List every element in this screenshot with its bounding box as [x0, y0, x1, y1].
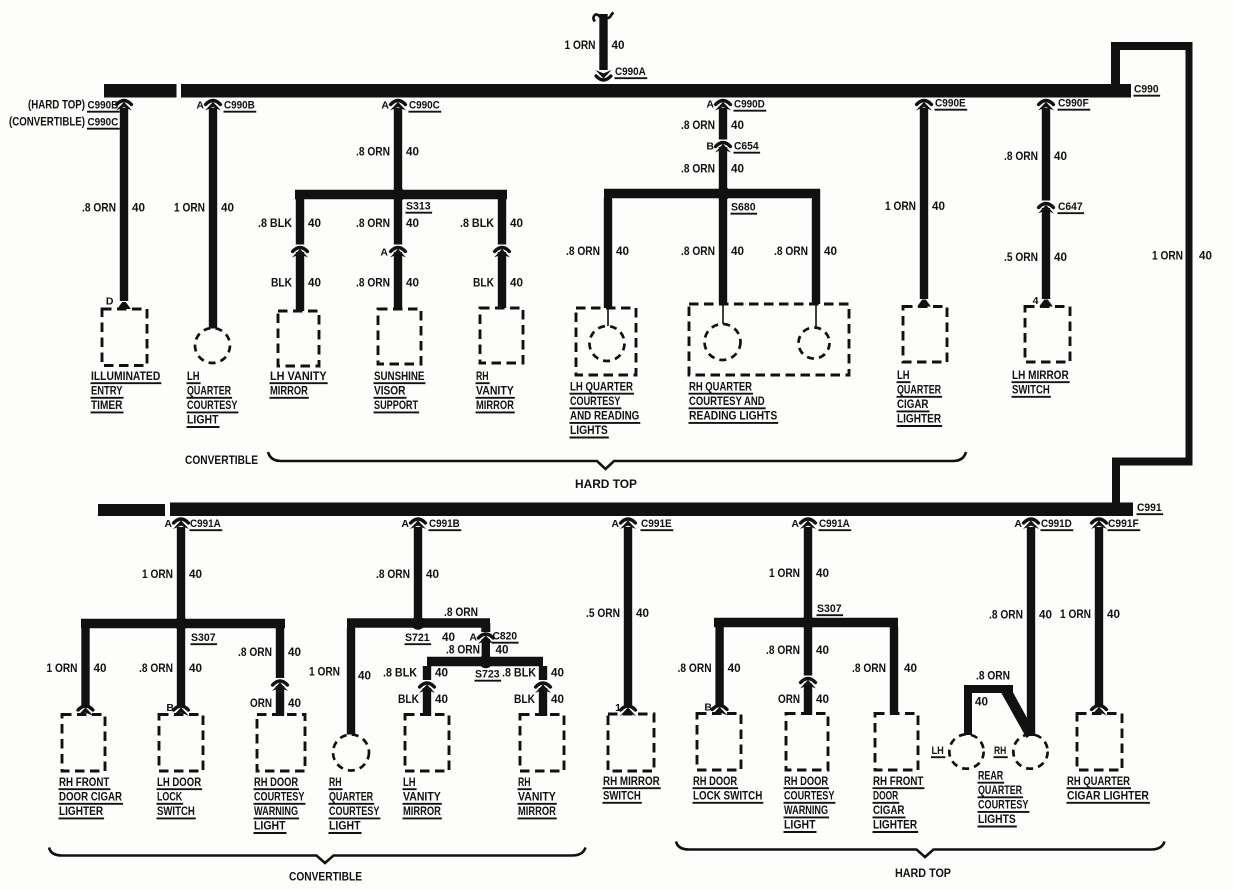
- svg-text:COURTESY: COURTESY: [570, 396, 621, 408]
- svg-text:1 ORN: 1 ORN: [174, 203, 205, 215]
- svg-text:40: 40: [904, 663, 917, 675]
- svg-text:C991: C991: [1137, 502, 1162, 514]
- svg-text:BLK: BLK: [271, 278, 293, 290]
- svg-text:1 ORN: 1 ORN: [142, 569, 173, 581]
- svg-text:RH MIRROR: RH MIRROR: [603, 776, 660, 788]
- wire W19 S307 centre to LH door lock switch: [177, 628, 185, 706]
- svg-text:A: A: [791, 518, 799, 530]
- svg-text:CIGAR LIGHTER: CIGAR LIGHTER: [1067, 790, 1150, 802]
- label .8 ORN on S721 right arm: [444, 607, 478, 619]
- label HARD TOP upper section: [575, 477, 637, 491]
- wire W7 S313 to sunshine visor upper: [394, 199, 402, 245]
- connector chevron on W26: [535, 683, 551, 693]
- svg-text:40: 40: [510, 218, 523, 230]
- svg-text:COURTESY: COURTESY: [784, 790, 835, 802]
- svg-text:RH: RH: [518, 777, 531, 789]
- wire W25 lower: [423, 688, 431, 716]
- svg-text:MIRROR: MIRROR: [518, 806, 556, 818]
- label wire W17 1 ORN 40: [142, 569, 202, 581]
- RH rear quarter courtesy lamp: [1013, 734, 1047, 768]
- wire W32 C991D to RH rear quarter lamp: [1027, 527, 1035, 736]
- svg-text:.8 ORN: .8 ORN: [1004, 151, 1038, 163]
- svg-text:.8 ORN: .8 ORN: [356, 278, 390, 290]
- splice S307 left: [174, 617, 188, 631]
- label LH vanity mirror bottom: [403, 777, 442, 819]
- junction bar S721: [347, 618, 490, 628]
- svg-text:40: 40: [1054, 151, 1067, 163]
- svg-text:LH QUARTER: LH QUARTER: [570, 381, 634, 393]
- LH quarter reading lamp: [590, 308, 625, 361]
- label wire W29 .8 ORN 40: [678, 663, 741, 675]
- svg-text:S721: S721: [405, 632, 430, 644]
- svg-text:(CONVERTIBLE): (CONVERTIBLE): [9, 117, 85, 129]
- label RH rear quarter lamp: [994, 745, 1008, 757]
- svg-text:40: 40: [406, 147, 419, 159]
- wire W34 C991F to RH quarter cigar lighter: [1095, 527, 1103, 706]
- pin 1 RH mirror switch: [615, 702, 621, 714]
- svg-text:A: A: [469, 632, 477, 644]
- label wire W30 .8 ORN 40: [766, 645, 829, 657]
- label RH front door cigar lighter left: [59, 777, 124, 819]
- svg-text:A: A: [1014, 518, 1022, 530]
- svg-text:.8 ORN: .8 ORN: [989, 610, 1023, 622]
- label HARD TOP bottom: [895, 866, 951, 880]
- svg-text:D: D: [106, 296, 114, 308]
- label wire W15 .8 ORN 40: [1004, 151, 1067, 163]
- svg-text:40: 40: [975, 697, 988, 709]
- svg-text:40: 40: [189, 569, 202, 581]
- label wire W1 1 ORN 40: [565, 40, 625, 52]
- svg-text:S723: S723: [475, 669, 500, 681]
- label RH quarter courtesy light: [329, 777, 381, 833]
- wire W28 C991A to S307 right: [804, 527, 812, 623]
- svg-text:LIGHT: LIGHT: [187, 415, 219, 427]
- svg-text:CIGAR: CIGAR: [873, 805, 905, 817]
- svg-text:HARD TOP: HARD TOP: [575, 477, 637, 491]
- svg-text:MIRROR: MIRROR: [403, 806, 441, 818]
- label wire W12 .8 ORN 40: [681, 246, 744, 258]
- connector C990C chevron: [390, 101, 406, 111]
- label RH front door cigar lighter right: [873, 776, 925, 832]
- svg-text:LIGHT: LIGHT: [784, 820, 816, 832]
- svg-text:A: A: [381, 100, 389, 112]
- wire W25 S723 to LH vanity mirror upper: [423, 666, 431, 680]
- pin A on W7: [380, 247, 388, 259]
- label wire W5 .8 ORN 40: [356, 147, 419, 159]
- svg-text:.8 ORN: .8 ORN: [446, 645, 480, 657]
- RH door courtesy warning light box left: [257, 715, 305, 772]
- junction bar S313: [295, 190, 507, 200]
- wire W33 branch horizontal to LH lamp: [964, 685, 1013, 693]
- label connector C990F: [1058, 98, 1091, 110]
- svg-text:.8 BLK: .8 BLK: [502, 668, 537, 680]
- label RH door courtesy warning light right: [784, 776, 836, 832]
- RH quarter reading lamp right: [799, 304, 830, 359]
- wire W29 S307 to RH door lock switch: [715, 627, 723, 706]
- wire W6 lower: [296, 252, 304, 311]
- wire W20 lower: [276, 686, 284, 716]
- label wire W30 ORN 40: [778, 694, 829, 706]
- svg-text:C990A: C990A: [615, 66, 646, 78]
- label connector C991F: [1108, 518, 1141, 530]
- svg-text:TIMER: TIMER: [91, 400, 123, 412]
- svg-text:ILLUMINATED: ILLUMINATED: [91, 371, 160, 383]
- label CONVERTIBLE bottom: [289, 870, 362, 884]
- svg-text:COURTESY: COURTESY: [329, 806, 380, 818]
- svg-text:RH DOOR: RH DOOR: [693, 776, 738, 788]
- connector chevron on W30: [800, 679, 816, 689]
- label wire W16 .5 ORN 40: [1004, 252, 1067, 264]
- connector C991B chevron: [410, 519, 426, 529]
- svg-text:(HARD TOP): (HARD TOP): [28, 100, 85, 112]
- RH vanity mirror box: [480, 308, 523, 363]
- RH door lock switch box: [697, 714, 741, 771]
- svg-text:READING LIGHTS: READING LIGHTS: [689, 411, 777, 423]
- label RH quarter courtesy and reading lights: [689, 381, 779, 423]
- svg-text:LH: LH: [897, 370, 910, 382]
- svg-text:40: 40: [816, 694, 829, 706]
- svg-text:40: 40: [932, 201, 945, 213]
- svg-text:DOOR: DOOR: [873, 790, 899, 802]
- label rear quarter courtesy lights: [978, 770, 1030, 826]
- RH quarter cigar lighter box: [1077, 714, 1122, 771]
- wire W33 diagonal: [1001, 686, 1036, 738]
- svg-text:40: 40: [426, 569, 439, 581]
- svg-text:HARD TOP: HARD TOP: [895, 866, 951, 880]
- svg-text:C990C: C990C: [409, 100, 440, 112]
- label splice S313: [406, 201, 433, 213]
- svg-text:.8 ORN: .8 ORN: [976, 671, 1010, 683]
- wire W10 C654 to S680: [719, 147, 727, 194]
- label wire W26 .8 BLK 40: [502, 668, 564, 680]
- label wire W32 .8 ORN 40: [989, 610, 1052, 622]
- wire W4 to LH quarter courtesy light: [209, 108, 217, 329]
- LH rear quarter courtesy lamp: [949, 734, 983, 768]
- svg-text:WARNING: WARNING: [784, 805, 828, 817]
- svg-text:RH: RH: [476, 371, 489, 383]
- wire W26 S723 to RH vanity mirror upper: [539, 666, 547, 680]
- svg-text:40: 40: [308, 278, 321, 290]
- junction bar S680: [604, 189, 820, 199]
- pin A connector C990C: [381, 100, 389, 112]
- svg-text:SWITCH: SWITCH: [157, 806, 195, 818]
- label LH mirror switch: [1012, 370, 1070, 397]
- svg-text:40: 40: [731, 120, 744, 132]
- wire W2 right vertical: [1186, 42, 1193, 465]
- svg-text:LH VANITY: LH VANITY: [270, 371, 327, 383]
- svg-text:COURTESY AND: COURTESY AND: [689, 396, 765, 408]
- svg-text:40: 40: [551, 694, 564, 706]
- label connector C647: [1058, 201, 1085, 213]
- svg-text:LIGHTS: LIGHTS: [570, 425, 608, 437]
- label wire W21 .8 ORN 40: [376, 569, 439, 581]
- wire W14 end flare: [917, 300, 931, 307]
- connector chevron on W7: [390, 248, 406, 258]
- wire W3 end flare: [117, 302, 131, 309]
- wire W2 lower jog horizontal: [1112, 458, 1193, 466]
- svg-text:QUARTER: QUARTER: [187, 385, 232, 397]
- label wire W7 .8 ORN 40 lower: [356, 278, 419, 290]
- svg-text:40: 40: [221, 203, 234, 215]
- svg-text:40: 40: [731, 164, 744, 176]
- svg-text:.8 ORN: .8 ORN: [678, 663, 712, 675]
- label connector C991A right: [819, 518, 852, 530]
- pin 4 LH mirror switch: [1033, 295, 1039, 307]
- svg-text:RH: RH: [994, 745, 1006, 757]
- svg-text:ORN: ORN: [250, 698, 272, 710]
- svg-text:C990B: C990B: [88, 100, 119, 112]
- pin A connector C991A left: [164, 518, 172, 530]
- svg-text:RH FRONT: RH FRONT: [59, 777, 109, 789]
- wire W5 C990C to S313: [394, 108, 402, 195]
- svg-text:.8 ORN: .8 ORN: [681, 120, 715, 132]
- svg-text:1 ORN: 1 ORN: [885, 201, 916, 213]
- connector C990A arrow into bus: [596, 70, 612, 80]
- label wire W10 .8 ORN 40: [681, 164, 744, 176]
- svg-text:C990B: C990B: [224, 100, 255, 112]
- svg-text:SUNSHINE: SUNSHINE: [374, 371, 425, 383]
- wire W11 S680 to LH quarter reading lights: [604, 198, 612, 308]
- svg-text:LH: LH: [932, 745, 944, 757]
- connector chevron on W27 at box: [620, 706, 636, 716]
- pin B RH door lock switch: [704, 702, 712, 714]
- wire W8 S313 to RH vanity mirror upper: [498, 199, 506, 245]
- wire W6 S313 to LH vanity mirror upper: [296, 199, 304, 245]
- svg-text:WARNING: WARNING: [254, 806, 298, 818]
- wire W2 lower jog vertical: [1112, 458, 1120, 504]
- svg-text:40: 40: [442, 632, 455, 644]
- connector C654 chevron: [715, 143, 731, 153]
- junction bar S307 left: [81, 619, 285, 629]
- svg-text:A: A: [380, 247, 388, 259]
- label splice S723: [475, 669, 502, 681]
- svg-text:SWITCH: SWITCH: [603, 790, 641, 802]
- connector C990F chevron: [1038, 101, 1054, 111]
- label wire W20 .8 ORN 40: [238, 647, 301, 659]
- svg-text:VANITY: VANITY: [476, 385, 514, 397]
- svg-text:40: 40: [728, 663, 741, 675]
- wire W2 top horizontal: [1111, 42, 1192, 50]
- label wire W4 1 ORN 40: [174, 203, 234, 215]
- svg-text:BLK: BLK: [473, 278, 495, 290]
- svg-text:VANITY: VANITY: [518, 791, 556, 803]
- svg-text:ENTRY: ENTRY: [91, 385, 123, 397]
- svg-text:40: 40: [189, 663, 202, 675]
- LH mirror switch box: [1025, 307, 1070, 363]
- connector C990D chevron: [715, 101, 731, 111]
- label wire W8 .8 BLK 40: [460, 218, 523, 230]
- svg-text:40: 40: [288, 647, 301, 659]
- label wire W14 1 ORN 40: [885, 201, 945, 213]
- svg-text:.8 ORN: .8 ORN: [774, 246, 808, 258]
- label wire W27 .5 ORN 40: [586, 608, 649, 620]
- RH door courtesy warning light box right: [786, 714, 828, 771]
- label bus C990: [1134, 84, 1161, 96]
- svg-text:LOCK SWITCH: LOCK SWITCH: [693, 790, 762, 802]
- label wire W26 BLK 40: [514, 694, 564, 706]
- svg-text:A: A: [401, 518, 409, 530]
- svg-text:S680: S680: [731, 202, 756, 214]
- label wire W22 1 ORN 40: [309, 667, 371, 683]
- wire W8 lower: [498, 252, 506, 308]
- wire W27 C991E to RH mirror switch: [624, 527, 632, 706]
- svg-text:S307: S307: [191, 632, 216, 644]
- svg-text:40: 40: [816, 645, 829, 657]
- splice S313: [392, 188, 406, 202]
- label connector C991B: [429, 518, 462, 530]
- svg-text:1 ORN: 1 ORN: [769, 568, 800, 580]
- svg-text:40: 40: [1107, 609, 1120, 621]
- connector C991A right chevron: [800, 519, 816, 529]
- svg-text:.8 ORN: .8 ORN: [852, 663, 886, 675]
- svg-text:DOOR CIGAR: DOOR CIGAR: [59, 791, 123, 803]
- wire W16 C647 to LH mirror switch: [1042, 208, 1050, 299]
- illuminated entry timer box: [102, 309, 147, 366]
- RH front door cigar lighter box left: [62, 715, 105, 772]
- svg-text:CONVERTIBLE: CONVERTIBLE: [185, 453, 258, 467]
- svg-text:.8 ORN: .8 ORN: [766, 645, 800, 657]
- wire W13 S680 to RH quarter reading lights right: [812, 198, 820, 304]
- pin A connector C820: [469, 632, 477, 644]
- label (HARD TOP) C990B: [28, 100, 120, 112]
- svg-text:1 ORN: 1 ORN: [1152, 251, 1183, 263]
- label wire W19 .8 ORN 40: [139, 663, 202, 675]
- RH mirror switch box: [608, 714, 654, 771]
- svg-text:C991F: C991F: [1108, 518, 1139, 530]
- svg-text:MIRROR: MIRROR: [270, 385, 308, 397]
- label wire W18 1 ORN 40: [47, 663, 107, 675]
- svg-text:40: 40: [406, 218, 419, 230]
- svg-text:1 ORN: 1 ORN: [565, 40, 596, 52]
- label wire W2 1 ORN 40: [1152, 251, 1212, 263]
- svg-text:CONVERTIBLE: CONVERTIBLE: [289, 870, 362, 884]
- bus bar C990 segment 2: [181, 84, 1131, 98]
- svg-text:.8 ORN: .8 ORN: [356, 147, 390, 159]
- label 40 left of C820: [442, 632, 455, 644]
- label wire W31 .8 ORN 40: [852, 663, 917, 675]
- svg-text:40: 40: [1199, 251, 1212, 263]
- svg-text:40: 40: [1054, 252, 1067, 264]
- label LH rear quarter lamp: [931, 745, 945, 757]
- svg-text:A: A: [196, 100, 204, 112]
- svg-text:LH DOOR: LH DOOR: [157, 777, 202, 789]
- LH quarter cigar lighter box: [903, 307, 947, 363]
- svg-text:SWITCH: SWITCH: [1012, 384, 1050, 396]
- LH quarter courtesy light lamp: [195, 328, 230, 363]
- wire W17 C991A to S307: [177, 527, 185, 624]
- svg-text:40: 40: [308, 218, 321, 230]
- connector chevron on W6: [292, 248, 308, 258]
- junction bar S723: [427, 657, 543, 667]
- svg-text:S307: S307: [817, 603, 842, 615]
- svg-text:LIGHTS: LIGHTS: [978, 814, 1016, 826]
- LH quarter courtesy and reading lights box: [576, 308, 636, 375]
- svg-text:40: 40: [435, 694, 448, 706]
- svg-text:LH MIRROR: LH MIRROR: [1012, 370, 1069, 382]
- label connector C991D: [1041, 518, 1074, 530]
- svg-text:.5 ORN: .5 ORN: [1004, 252, 1038, 264]
- wire W18 S307 to RH front door cigar lighter: [81, 628, 89, 707]
- connector C991A left chevron: [173, 519, 189, 529]
- label wire W8 BLK 40: [473, 278, 523, 290]
- connector C990B chevron: [205, 101, 221, 111]
- svg-text:RH FRONT: RH FRONT: [873, 776, 923, 788]
- svg-text:40: 40: [636, 608, 649, 620]
- wire W30 S307 centre to RH door courtesy warning light: [804, 627, 812, 676]
- svg-text:COURTESY: COURTESY: [254, 791, 305, 803]
- brace hard top bottom: [676, 842, 1165, 858]
- wire W7 lower: [394, 252, 402, 309]
- sunshine visor support box: [378, 309, 421, 364]
- label RH door courtesy warning light left: [254, 777, 306, 833]
- svg-text:B: B: [706, 141, 714, 153]
- svg-text:C990: C990: [1134, 84, 1159, 96]
- label wire W11 .8 ORN 40: [566, 246, 629, 258]
- svg-text:C820: C820: [493, 631, 518, 643]
- svg-text:.8 ORN: .8 ORN: [566, 246, 600, 258]
- label connector C990C: [409, 100, 442, 112]
- wire W24 C820 to S723: [482, 639, 490, 662]
- svg-text:40: 40: [435, 668, 448, 680]
- pin A connector C991A right: [791, 518, 799, 530]
- svg-text:ORN: ORN: [778, 694, 800, 706]
- connector C820 chevron: [478, 634, 494, 644]
- label wire W7 .8 ORN 40 upper: [356, 218, 419, 230]
- label LH quarter cigar lighter: [897, 370, 943, 426]
- label RH mirror switch: [603, 776, 661, 803]
- label wire W24 .8 ORN 40: [446, 645, 509, 657]
- svg-text:.8 BLK: .8 BLK: [258, 218, 293, 230]
- label splice S680: [731, 202, 758, 214]
- wire W33 vertical to LH lamp: [964, 689, 972, 735]
- svg-text:40: 40: [510, 278, 523, 290]
- label connector C990B: [224, 100, 257, 112]
- label splice S307 left: [191, 632, 218, 644]
- svg-text:.8 ORN: .8 ORN: [681, 246, 715, 258]
- label CONVERTIBLE top section: [185, 453, 258, 467]
- svg-text:SUPPORT: SUPPORT: [374, 400, 418, 412]
- wire W16 end flare: [1039, 300, 1053, 307]
- svg-text:C654: C654: [734, 141, 759, 153]
- RH quarter courtesy light lamp: [333, 735, 369, 771]
- connector chevron on W18 at box: [78, 706, 94, 716]
- RH quarter reading lamp left: [705, 304, 741, 360]
- wire W15 C990F to C647: [1042, 108, 1050, 201]
- label wire W34 1 ORN 40: [1060, 609, 1120, 621]
- wire W9 C990D to C654: [719, 108, 727, 140]
- wire W31 S307 to RH front door cigar lighter right: [890, 627, 898, 714]
- label LH vanity mirror: [270, 371, 328, 398]
- label RH vanity mirror bottom: [518, 777, 557, 819]
- svg-text:.8 ORN: .8 ORN: [444, 607, 478, 619]
- svg-text:MIRROR: MIRROR: [476, 400, 514, 412]
- svg-text:RH QUARTER: RH QUARTER: [1067, 776, 1131, 788]
- svg-text:CIGAR: CIGAR: [897, 399, 929, 411]
- label wire W28 1 ORN 40: [769, 568, 829, 580]
- wire W14 C990E to LH quarter cigar lighter: [920, 108, 928, 299]
- svg-text:40: 40: [406, 278, 419, 290]
- svg-text:VANITY: VANITY: [403, 791, 441, 803]
- label (CONVERTIBLE) C990C: [9, 117, 120, 129]
- svg-text:C990E: C990E: [935, 98, 966, 110]
- connector chevron on W8: [494, 248, 510, 258]
- svg-text:LIGHTER: LIGHTER: [59, 806, 104, 818]
- splice S307 right: [801, 616, 815, 630]
- label wire W25 .8 BLK 40: [383, 668, 448, 680]
- svg-text:C991A: C991A: [190, 518, 221, 530]
- LH door lock switch box: [159, 715, 203, 772]
- label wire W33 .8 ORN: [976, 671, 1010, 683]
